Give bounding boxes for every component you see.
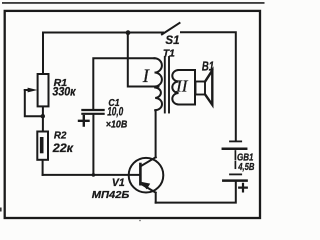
svg-text:S1: S1	[165, 33, 180, 47]
svg-text:×10В: ×10В	[106, 119, 128, 131]
svg-text:10,0: 10,0	[107, 107, 123, 119]
svg-text:V1: V1	[112, 177, 125, 189]
svg-text:4,5В: 4,5В	[237, 162, 254, 173]
svg-text:R2: R2	[54, 130, 67, 142]
svg-text:330к: 330к	[52, 87, 76, 99]
svg-text:B1: B1	[202, 60, 214, 74]
svg-text:T1: T1	[163, 48, 175, 60]
svg-text:I: I	[142, 67, 150, 87]
svg-text:22к: 22к	[52, 143, 75, 155]
svg-text:МП42Б: МП42Б	[92, 189, 130, 201]
svg-text:II: II	[175, 76, 189, 95]
